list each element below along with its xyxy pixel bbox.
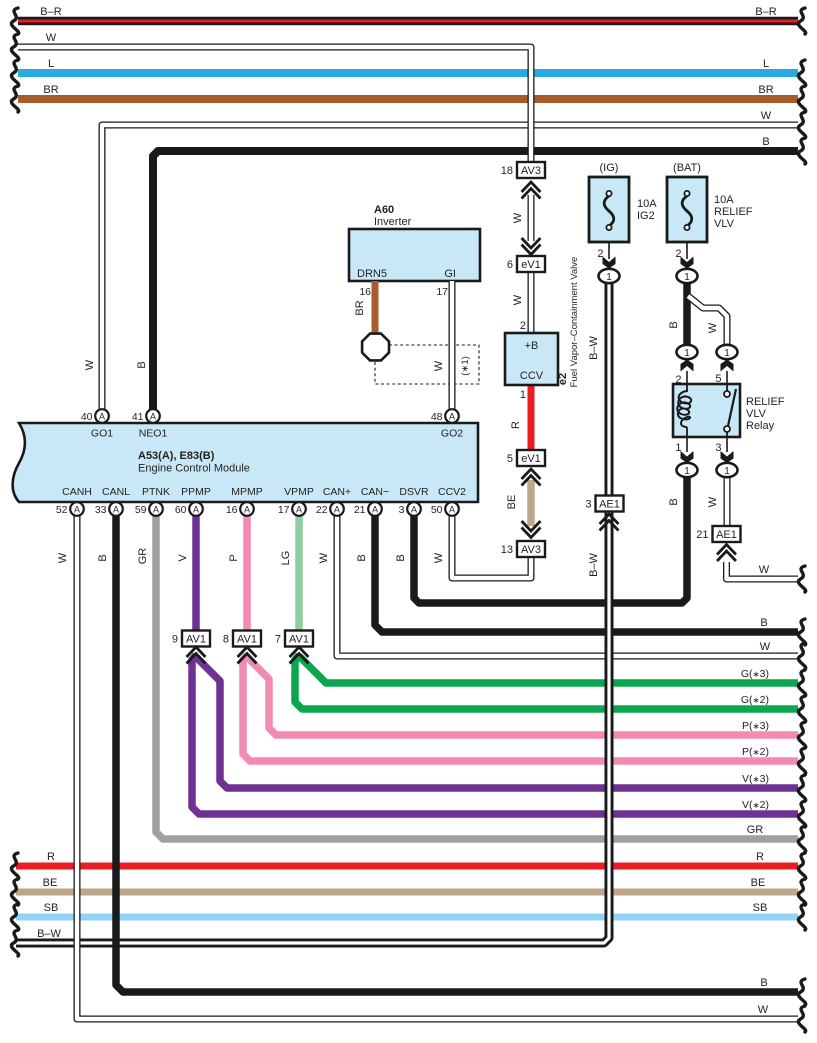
wire W from connector AE1-21 to right edge — [727, 562, 799, 579]
svg-text:3: 3 — [585, 499, 591, 511]
svg-text:16: 16 — [359, 286, 371, 298]
wire B from ECM pin 41 NEO1 to right edge — [153, 151, 798, 412]
ECM pin 52 CANH — [70, 502, 84, 516]
svg-text:AV3: AV3 — [521, 165, 541, 177]
svg-text:VLV: VLV — [714, 218, 735, 230]
wire B from fuse RELIEF VLV to relay junction — [683, 283, 691, 345]
svg-text:AE1: AE1 — [599, 499, 620, 511]
wire V from ECM pin 60 PPMP to connector AV1-9 — [192, 516, 200, 632]
wire SB bus (bottom) — [16, 914, 798, 921]
svg-text:B–R: B–R — [40, 6, 61, 18]
svg-text:9: 9 — [172, 634, 178, 646]
svg-text:2: 2 — [520, 320, 526, 332]
svg-text:W: W — [759, 564, 770, 576]
wire V(*2) from connector AV1-9 to right edge — [192, 655, 798, 814]
wire W from ECM pin 50 CCV2 to connector AV3-13 — [452, 516, 531, 578]
wire W from inverter pin 17 GI to ECM pin 48 GO2 — [449, 281, 456, 412]
svg-text:W: W — [433, 360, 445, 371]
svg-text:40: 40 — [81, 411, 93, 423]
wire B from ECM pin 33 CANL to right edge — [116, 516, 798, 992]
svg-text:R: R — [756, 851, 764, 863]
wire G(*2) from connector AV1-7 to right edge — [295, 655, 798, 709]
svg-text:W: W — [46, 32, 57, 44]
svg-text:LG: LG — [280, 551, 292, 566]
svg-text:1: 1 — [724, 348, 730, 359]
svg-text:A: A — [153, 504, 159, 514]
wire W bus from left edge down to connector AV3 — [18, 47, 531, 162]
svg-text:1: 1 — [724, 466, 730, 477]
svg-text:3: 3 — [399, 504, 405, 516]
wire R bus (bottom) — [16, 863, 798, 870]
svg-text:22: 22 — [316, 504, 328, 516]
svg-text:B: B — [395, 554, 407, 561]
svg-text:59: 59 — [135, 504, 147, 516]
junction 1 above relay pin 2 — [681, 360, 694, 372]
svg-text:33: 33 — [95, 504, 107, 516]
svg-text:A: A — [193, 504, 199, 514]
svg-text:B: B — [760, 977, 767, 989]
svg-text:eV1: eV1 — [521, 259, 541, 271]
fuse 10A IG2 (IG) — [589, 177, 629, 242]
svg-text:50: 50 — [431, 504, 443, 516]
svg-text:Relay: Relay — [746, 420, 775, 432]
junction 1 below relay pin 3 — [726, 437, 728, 452]
svg-text:B–W: B–W — [588, 552, 600, 576]
ECM pin 60 PPMP — [189, 502, 203, 516]
svg-text:CCV2: CCV2 — [438, 486, 466, 498]
ECM pin 3 DSVR — [407, 502, 421, 516]
connector eV1 pin 5 — [517, 450, 545, 466]
svg-text:CANH: CANH — [62, 486, 92, 498]
svg-text:eV1: eV1 — [521, 453, 541, 465]
svg-text:A: A — [449, 504, 455, 514]
shield octagon — [362, 334, 389, 361]
svg-text:IG2: IG2 — [637, 210, 655, 222]
wire W from connector eV1-6 to valve CCV pin 2 — [528, 272, 535, 333]
svg-text:(∗1): (∗1) — [460, 356, 471, 376]
svg-text:BR: BR — [43, 84, 58, 96]
svg-text:48: 48 — [431, 411, 443, 423]
svg-text:16: 16 — [226, 504, 238, 516]
ECM pin 21 CAN- — [368, 502, 382, 516]
svg-text:AE1: AE1 — [716, 529, 737, 541]
svg-text:CCV: CCV — [520, 370, 544, 382]
svg-text:B: B — [136, 361, 148, 368]
svg-text:W: W — [318, 552, 330, 563]
wire W from ECM pin 40 GO1 to right edge — [102, 125, 798, 412]
svg-text:1: 1 — [684, 348, 690, 359]
svg-text:10A: 10A — [637, 198, 657, 210]
svg-text:PPMP: PPMP — [181, 486, 211, 498]
wire P(*2) from connector AV1-8 to right edge — [243, 655, 798, 761]
ECM pin 41 NEO1 — [146, 409, 160, 423]
ECM pin 22 CAN+ — [330, 502, 344, 516]
svg-text:NEO1: NEO1 — [139, 428, 168, 440]
junction 1 above relay pin 5 — [721, 360, 734, 372]
svg-text:P: P — [228, 554, 240, 561]
svg-text:GR: GR — [747, 824, 764, 836]
svg-text:B: B — [356, 554, 368, 561]
svg-text:B: B — [668, 321, 680, 328]
ECM pin 33 CANL — [109, 502, 123, 516]
junction 1 below fuse RELIEF VLV — [677, 269, 698, 283]
svg-text:AV3: AV3 — [521, 544, 541, 556]
connector eV1 pin 6 — [523, 239, 540, 248]
svg-text:+B: +B — [525, 340, 539, 352]
svg-text:A: A — [411, 504, 417, 514]
svg-text:W: W — [512, 294, 524, 305]
svg-text:GI: GI — [444, 268, 456, 280]
connector AV1 pin 9 — [182, 631, 210, 647]
fuse 10A RELIEF VLV (BAT) — [667, 177, 707, 242]
svg-text:VLV: VLV — [746, 408, 767, 420]
connector AV1 pin 8 — [233, 631, 261, 647]
svg-text:AV1: AV1 — [186, 634, 206, 646]
svg-text:8: 8 — [223, 634, 229, 646]
svg-text:W: W — [512, 212, 524, 223]
junction 1 below relay pin 1 — [686, 437, 688, 452]
ECM pin 40 GO1 — [95, 409, 109, 423]
svg-text:G(∗2): G(∗2) — [741, 694, 769, 706]
connector AE1 pin 21 — [713, 526, 741, 542]
svg-text:BE: BE — [751, 877, 766, 889]
svg-text:V(∗2): V(∗2) — [742, 799, 769, 811]
svg-text:RELIEF: RELIEF — [714, 206, 753, 218]
wire BE bus (bottom) — [16, 889, 798, 896]
svg-text:A: A — [99, 411, 105, 421]
svg-text:PTNK: PTNK — [142, 486, 170, 498]
svg-text:1: 1 — [684, 466, 690, 477]
svg-text:BE: BE — [43, 877, 58, 889]
svg-text:21: 21 — [354, 504, 366, 516]
svg-text:10A: 10A — [714, 194, 734, 206]
svg-text:BR: BR — [354, 300, 366, 315]
wire V(*3) from connector AV1-9 to right edge — [196, 657, 798, 788]
svg-text:R: R — [47, 851, 55, 863]
svg-text:CAN−: CAN− — [361, 486, 389, 498]
svg-text:17: 17 — [436, 286, 448, 298]
svg-text:P(∗2): P(∗2) — [742, 746, 769, 758]
inverter A60 — [349, 229, 480, 281]
svg-text:G(∗3): G(∗3) — [741, 668, 769, 680]
shield dashed box (*1) — [375, 345, 479, 384]
wire B-R bus (top) — [18, 17, 798, 26]
svg-text:21: 21 — [696, 529, 708, 541]
wire R from valve CCV pin 1 to connector eV1-5 — [528, 385, 535, 450]
wire P(*3) from connector AV1-8 to right edge — [247, 657, 798, 735]
wire BR from inverter pin 16 DRN5 to shield — [372, 281, 379, 335]
svg-text:DSVR: DSVR — [399, 486, 429, 498]
connector AV3 pin 18 — [517, 162, 545, 178]
svg-text:A: A — [449, 411, 455, 421]
svg-text:e2: e2 — [557, 373, 569, 385]
svg-text:B: B — [760, 617, 767, 629]
svg-text:DRN5: DRN5 — [357, 268, 387, 280]
svg-text:W: W — [760, 641, 771, 653]
svg-text:13: 13 — [501, 544, 513, 556]
svg-text:7: 7 — [275, 634, 281, 646]
svg-text:GR: GR — [137, 548, 149, 565]
wire B-W from fuse IG2 to left edge — [16, 283, 609, 943]
ECM pin 59 PTNK — [149, 502, 163, 516]
svg-text:W: W — [761, 110, 772, 122]
svg-text:CAN+: CAN+ — [323, 486, 351, 498]
svg-text:AV1: AV1 — [289, 634, 309, 646]
svg-text:SB: SB — [753, 902, 768, 914]
svg-text:5: 5 — [507, 453, 513, 465]
wire L bus (top) — [18, 69, 798, 77]
ECM A53(A) E83(B) Engine Control Module — [13, 423, 478, 502]
svg-text:A: A — [334, 504, 340, 514]
svg-text:V(∗3): V(∗3) — [742, 773, 769, 785]
svg-text:W: W — [758, 1004, 769, 1016]
svg-text:1: 1 — [606, 272, 612, 283]
svg-text:(BAT): (BAT) — [673, 162, 701, 174]
svg-text:P(∗3): P(∗3) — [742, 720, 769, 732]
svg-text:B: B — [668, 498, 680, 505]
wire LG from ECM pin 17 VPMP to connector AV1-7 — [295, 516, 303, 632]
svg-text:SB: SB — [44, 902, 59, 914]
svg-text:BE: BE — [506, 495, 518, 510]
ECM pin 48 GO2 — [445, 409, 459, 423]
wire BR bus (top) — [18, 95, 798, 103]
svg-text:52: 52 — [56, 504, 68, 516]
svg-text:Inverter: Inverter — [374, 216, 412, 228]
svg-text:B: B — [97, 554, 109, 561]
svg-text:W: W — [433, 552, 445, 563]
svg-text:A53(A), E83(B): A53(A), E83(B) — [138, 450, 215, 462]
wire W from ECM pin 52 CANH to right edge — [77, 516, 798, 1019]
svg-text:A: A — [113, 504, 119, 514]
svg-text:Fuel Vapor–Containment Valve: Fuel Vapor–Containment Valve — [569, 257, 580, 388]
wire W from ECM pin 22 CAN+ to right edge — [337, 516, 798, 656]
wire P from ECM pin 16 MPMP to connector AV1-8 — [243, 516, 251, 632]
wire G(*3) from connector AV1-7 to right edge — [299, 656, 798, 683]
wire W from relay pin 3 to connector AE1-21 — [724, 477, 731, 527]
svg-text:17: 17 — [278, 504, 290, 516]
svg-text:CANL: CANL — [102, 486, 130, 498]
svg-text:60: 60 — [175, 504, 187, 516]
svg-text:18: 18 — [501, 165, 513, 177]
connector AE1 pin 3 — [596, 496, 624, 512]
wire GR from ECM pin 59 PTNK to right edge — [156, 516, 798, 839]
junction 1 below fuse IG2 — [599, 269, 620, 283]
wire B from ECM pin 21 CAN- to right edge — [375, 516, 798, 632]
svg-text:L: L — [48, 58, 54, 70]
svg-text:W: W — [707, 496, 719, 507]
svg-text:BR: BR — [758, 84, 773, 96]
valve CCV (e2 Fuel Vapor-Containment Valve) — [505, 333, 558, 385]
svg-text:AV1: AV1 — [237, 634, 257, 646]
svg-text:W: W — [57, 552, 69, 563]
svg-text:A: A — [74, 504, 80, 514]
wire BE from connector eV1-5 to connector AV3-13 — [527, 480, 535, 526]
svg-text:B–W: B–W — [37, 928, 61, 940]
svg-text:VPMP: VPMP — [284, 486, 314, 498]
svg-text:R: R — [510, 421, 522, 429]
svg-text:A: A — [150, 411, 156, 421]
connector AV1 pin 7 — [285, 631, 313, 647]
ECM pin 17 VPMP — [292, 502, 306, 516]
svg-text:1: 1 — [520, 389, 526, 401]
svg-text:GO2: GO2 — [441, 428, 463, 440]
svg-text:RELIEF: RELIEF — [746, 396, 785, 408]
wire W branch from fuse RELIEF VLV to relay junction — [688, 296, 727, 345]
wire W from connector AV3-18 to connector eV1-6 — [528, 195, 535, 241]
svg-text:41: 41 — [132, 411, 144, 423]
svg-text:Engine Control Module: Engine Control Module — [138, 463, 250, 475]
svg-text:L: L — [763, 58, 769, 70]
svg-text:MPMP: MPMP — [231, 486, 263, 498]
svg-text:W: W — [707, 322, 719, 333]
svg-text:(IG): (IG) — [600, 162, 619, 174]
svg-text:B–W: B–W — [588, 335, 600, 359]
wire B from ECM pin 3 DSVR to relief valve relay pin 1 — [414, 477, 687, 603]
svg-text:W: W — [84, 359, 96, 370]
ECM pin 16 MPMP — [240, 502, 254, 516]
relay RELIEF VLV — [673, 384, 740, 437]
svg-text:B: B — [762, 136, 769, 148]
svg-text:6: 6 — [507, 259, 513, 271]
svg-text:A: A — [244, 504, 250, 514]
svg-text:V: V — [177, 554, 189, 562]
svg-text:GO1: GO1 — [91, 428, 113, 440]
svg-text:B–R: B–R — [755, 6, 776, 18]
svg-text:1: 1 — [684, 272, 690, 283]
svg-text:A: A — [296, 504, 302, 514]
svg-text:A60: A60 — [374, 204, 394, 216]
svg-text:A: A — [372, 504, 378, 514]
ECM pin 50 CCV2 — [445, 502, 459, 516]
connector AV3 pin 13 — [523, 522, 540, 531]
